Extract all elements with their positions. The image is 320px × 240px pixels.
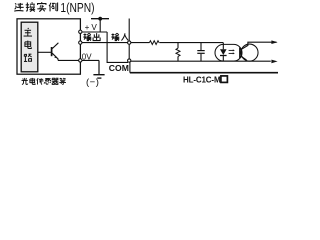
photocoupler U1 light arrows <box>229 49 235 54</box>
wire: controller terminal strip vertical <box>128 19 130 61</box>
output arrowheads <box>271 40 277 44</box>
node: supply junction dot <box>98 17 102 21</box>
transistor Q1 emitter arrowhead <box>54 56 57 59</box>
wire: rail drop to +V <box>99 19 101 32</box>
wire: COM terminal drop <box>129 61 131 72</box>
photocoupler U1 LED D1 <box>222 43 224 50</box>
wire: COM rail <box>130 72 278 74</box>
collector <box>52 43 58 49</box>
main circuit block 主电路 <box>21 22 38 72</box>
wire: +V branch down to COM terminal <box>107 32 128 62</box>
terminals: 输入 and COM circles <box>128 41 131 62</box>
resistor R2 (shunt) <box>176 43 180 62</box>
wire: +V supply rail <box>91 18 109 20</box>
resistor R1 (series input) <box>149 41 159 45</box>
wire: 0V <box>58 59 99 61</box>
svg-text:0V: 0V <box>82 53 92 62</box>
wire: +V <box>80 31 107 33</box>
wire: Q2 collector to output arrow <box>241 42 277 50</box>
emitter <box>52 53 58 60</box>
terminals: sensor +V / 输出 / 0V circles <box>79 30 82 62</box>
photocoupler U1 outline <box>215 44 242 61</box>
label 输出 <box>83 33 100 40</box>
transistor Q2 circle <box>241 44 258 61</box>
wire: input line <box>131 42 149 44</box>
title 连接实例1(NPN) <box>14 1 94 15</box>
label 光电传感器等 <box>21 78 65 85</box>
base bar <box>51 47 53 56</box>
svg-text:HL-C1C-M: HL-C1C-M <box>183 75 221 84</box>
wire: internal COM line <box>131 60 271 62</box>
svg-text:1(NPN): 1(NPN) <box>60 1 94 15</box>
label 输入 <box>111 33 128 40</box>
ground (power supply minus) <box>98 60 100 74</box>
transistor Q1 (NPN output) <box>38 43 58 61</box>
svg-text:(−): (−) <box>86 77 99 88</box>
svg-text:+V: +V <box>85 23 99 32</box>
wire: Q2 emitter <box>241 56 247 61</box>
photoelectric sensor box <box>17 19 80 74</box>
phototransistor Q2 base bar <box>239 48 241 59</box>
svg-text:COM: COM <box>109 63 129 73</box>
wire: sensor output to input terminal <box>80 42 129 44</box>
capacitor C1 <box>197 43 204 62</box>
base wire <box>38 51 51 53</box>
